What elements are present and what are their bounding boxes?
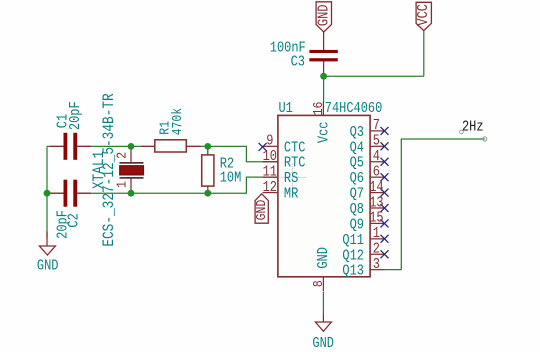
svg-text:U1: U1 bbox=[279, 100, 293, 116]
svg-text:10: 10 bbox=[263, 148, 277, 164]
svg-text:Q5: Q5 bbox=[350, 155, 364, 171]
svg-text:15: 15 bbox=[369, 210, 383, 226]
svg-text:16: 16 bbox=[310, 102, 326, 116]
svg-text:Q6: Q6 bbox=[350, 170, 364, 186]
svg-text:Q9: Q9 bbox=[350, 216, 364, 232]
svg-text:Q4: Q4 bbox=[350, 139, 364, 155]
svg-text:8: 8 bbox=[310, 280, 326, 287]
svg-text:Vcc: Vcc bbox=[315, 122, 331, 144]
svg-text:3: 3 bbox=[373, 256, 380, 272]
svg-text:GND: GND bbox=[253, 200, 269, 221]
svg-text:Q3: Q3 bbox=[350, 124, 364, 140]
svg-text:Q8: Q8 bbox=[350, 201, 364, 217]
svg-text:4: 4 bbox=[373, 148, 380, 164]
svg-text:C2: C2 bbox=[66, 213, 82, 227]
svg-text:C3: C3 bbox=[291, 53, 305, 69]
svg-text:Q12: Q12 bbox=[342, 247, 364, 263]
svg-text:Q13: Q13 bbox=[342, 263, 364, 279]
svg-text:Q7: Q7 bbox=[350, 186, 364, 202]
svg-text:470k: 470k bbox=[169, 108, 185, 136]
svg-text:9: 9 bbox=[266, 133, 273, 149]
svg-text:2Hz: 2Hz bbox=[462, 119, 484, 135]
svg-text:1: 1 bbox=[373, 225, 380, 241]
svg-text:GND: GND bbox=[315, 5, 331, 27]
svg-text:Q11: Q11 bbox=[342, 232, 364, 248]
svg-text:6: 6 bbox=[373, 163, 380, 179]
svg-text:GND: GND bbox=[312, 335, 334, 351]
svg-text:MR: MR bbox=[284, 186, 298, 202]
svg-text:12: 12 bbox=[263, 179, 277, 195]
svg-text:74HC4060: 74HC4060 bbox=[325, 100, 383, 116]
svg-text:11: 11 bbox=[263, 163, 277, 179]
svg-text:14: 14 bbox=[369, 179, 383, 195]
svg-text:GND: GND bbox=[37, 257, 59, 273]
svg-text:VCC: VCC bbox=[415, 4, 431, 26]
svg-text:RS: RS bbox=[284, 170, 298, 186]
svg-text:5: 5 bbox=[373, 133, 380, 149]
svg-text:RTC: RTC bbox=[284, 155, 306, 171]
svg-text:10M: 10M bbox=[220, 170, 242, 186]
svg-text:GND: GND bbox=[315, 247, 331, 269]
svg-text:13: 13 bbox=[369, 194, 383, 210]
svg-text:2: 2 bbox=[373, 241, 380, 257]
svg-text:ECS-_327-12_5-34B-TR: ECS-_327-12_5-34B-TR bbox=[101, 93, 118, 247]
svg-text:CTC: CTC bbox=[284, 139, 306, 155]
svg-text:7: 7 bbox=[373, 117, 380, 133]
svg-text:20pF: 20pF bbox=[67, 101, 83, 130]
